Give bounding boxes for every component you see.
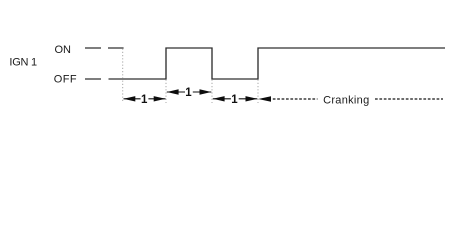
OFF level leader dash (85, 78, 101, 80)
Cranking dashed leader left (273, 98, 318, 100)
Cranking arrow head (258, 96, 271, 101)
gridline t3 (257, 80, 259, 103)
interval arrow 2 (t1-t2) (167, 87, 212, 99)
gridline t1 (165, 80, 167, 103)
IGN 1 waveform (109, 48, 446, 79)
svg-text:1: 1 (141, 94, 148, 106)
svg-text:OFF: OFF (54, 73, 77, 85)
gridline t0 (122, 49, 124, 103)
interval arrow 3 (t2-t3) (213, 94, 257, 106)
ON level leader dash 2 (108, 47, 124, 49)
svg-text:IGN 1: IGN 1 (9, 57, 37, 69)
svg-text:1: 1 (231, 94, 238, 106)
Cranking dashed leader right (375, 98, 443, 100)
svg-text:1: 1 (185, 87, 192, 99)
svg-text:Cranking: Cranking (323, 94, 369, 106)
ON level leader dash 1 (85, 47, 101, 49)
gridline t2 (211, 80, 213, 103)
interval arrow 1 (t0-t1) (124, 94, 166, 106)
svg-text:ON: ON (55, 44, 72, 56)
